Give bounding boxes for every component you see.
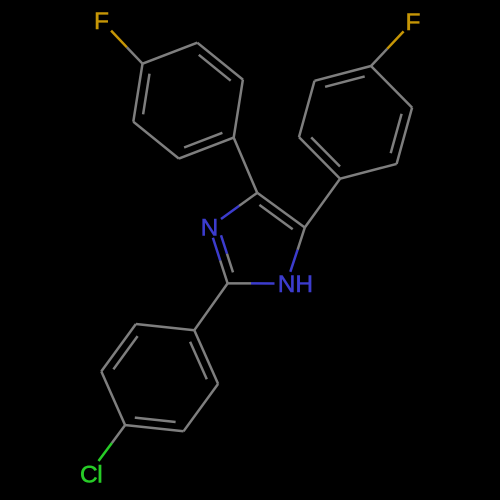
svg-text:NH: NH <box>278 271 313 298</box>
svg-text:F: F <box>406 9 421 36</box>
svg-text:F: F <box>94 8 109 35</box>
svg-text:N: N <box>201 215 219 242</box>
svg-text:Cl: Cl <box>80 461 102 488</box>
